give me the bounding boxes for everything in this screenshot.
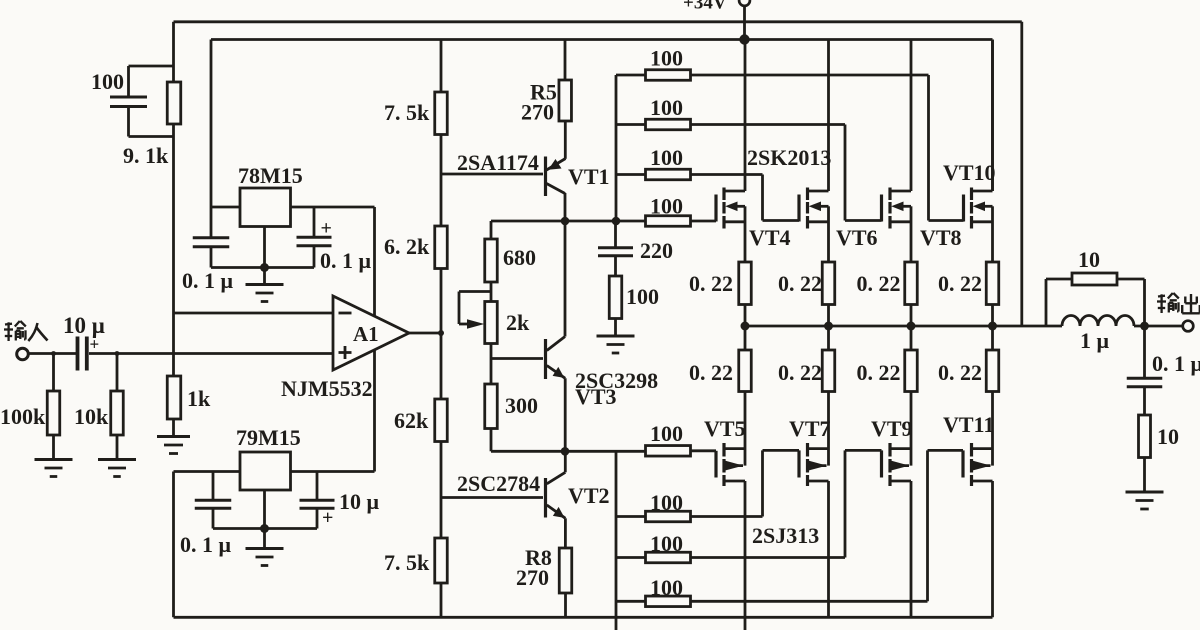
svg-text:VT4: VT4 xyxy=(749,225,791,250)
svg-text:10k: 10k xyxy=(74,404,109,429)
svg-text:0. 22: 0. 22 xyxy=(689,360,733,385)
svg-text:78M15: 78M15 xyxy=(238,163,303,188)
svg-text:7. 5k: 7. 5k xyxy=(384,550,430,575)
svg-text:VT2: VT2 xyxy=(568,483,610,508)
svg-text:100: 100 xyxy=(650,575,683,600)
svg-text:100: 100 xyxy=(650,145,683,170)
svg-text:7. 5k: 7. 5k xyxy=(384,100,430,125)
svg-text:0. 1 μ: 0. 1 μ xyxy=(180,532,232,557)
svg-text:1 μ: 1 μ xyxy=(1080,328,1110,353)
svg-text:VT8: VT8 xyxy=(920,225,962,250)
svg-text:A1: A1 xyxy=(353,322,379,346)
svg-text:0. 22: 0. 22 xyxy=(778,271,822,296)
svg-text:0. 22: 0. 22 xyxy=(938,271,982,296)
svg-text:VT5: VT5 xyxy=(704,416,746,441)
svg-text:10: 10 xyxy=(1078,247,1100,272)
svg-text:0. 22: 0. 22 xyxy=(689,271,733,296)
svg-text:VT6: VT6 xyxy=(836,225,878,250)
svg-text:270: 270 xyxy=(521,100,554,125)
svg-text:2SJ313: 2SJ313 xyxy=(752,523,819,548)
svg-text:62k: 62k xyxy=(394,408,429,433)
svg-text:0. 22: 0. 22 xyxy=(857,271,901,296)
svg-text:0. 1 μ: 0. 1 μ xyxy=(1152,351,1200,376)
svg-text:100k: 100k xyxy=(0,404,46,429)
svg-text:300: 300 xyxy=(505,393,538,418)
svg-text:9. 1k: 9. 1k xyxy=(123,143,169,168)
svg-text:680: 680 xyxy=(503,245,536,270)
svg-text:100: 100 xyxy=(626,284,659,309)
svg-text:VT7: VT7 xyxy=(789,416,831,441)
svg-text:10 μ: 10 μ xyxy=(339,489,380,514)
svg-text:NJM5532: NJM5532 xyxy=(281,376,373,401)
svg-text:VT3: VT3 xyxy=(575,384,617,409)
svg-text:1k: 1k xyxy=(187,386,211,411)
svg-text:100: 100 xyxy=(650,421,683,446)
svg-text:2SA1174: 2SA1174 xyxy=(457,150,539,175)
svg-text:79M15: 79M15 xyxy=(236,425,301,450)
svg-text:100: 100 xyxy=(650,46,683,71)
svg-text:2SK2013: 2SK2013 xyxy=(747,145,831,170)
svg-text:+: + xyxy=(322,507,333,529)
svg-text:0. 22: 0. 22 xyxy=(857,360,901,385)
svg-text:220: 220 xyxy=(640,238,673,263)
svg-text:270: 270 xyxy=(516,565,549,590)
svg-text:10: 10 xyxy=(1157,424,1179,449)
svg-text:VT1: VT1 xyxy=(568,164,610,189)
svg-text:100: 100 xyxy=(91,69,124,94)
svg-text:0. 22: 0. 22 xyxy=(938,360,982,385)
svg-text:0. 1 μ: 0. 1 μ xyxy=(182,268,234,293)
svg-text:100: 100 xyxy=(650,531,683,556)
svg-text:+: + xyxy=(321,218,332,240)
svg-text:VT9: VT9 xyxy=(871,416,913,441)
svg-text:0. 22: 0. 22 xyxy=(778,360,822,385)
svg-text:100: 100 xyxy=(650,490,683,515)
svg-text:VT10: VT10 xyxy=(943,160,996,185)
svg-text:0. 1 μ: 0. 1 μ xyxy=(320,248,372,273)
svg-text:2SC2784: 2SC2784 xyxy=(457,471,540,496)
svg-text:6. 2k: 6. 2k xyxy=(384,234,430,259)
svg-text:VT11: VT11 xyxy=(943,412,994,437)
svg-text:100: 100 xyxy=(650,95,683,120)
svg-text:2k: 2k xyxy=(506,310,530,335)
svg-text:+: + xyxy=(90,335,100,354)
svg-text:+34V: +34V xyxy=(683,0,727,14)
svg-text:100: 100 xyxy=(650,194,683,219)
